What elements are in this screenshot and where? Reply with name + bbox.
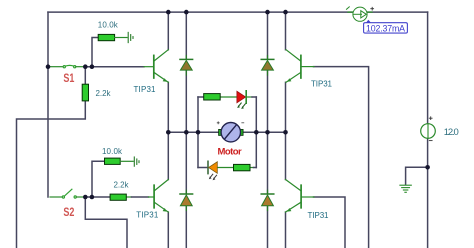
diode D4 (lower-right freewheel): [261, 190, 274, 210]
ground (main, at battery): [400, 185, 411, 192]
wire: R2 bottom lead cross-coupling to bottom edge (drives T4): [17, 101, 86, 248]
wire: ground branch from battery minus node: [406, 167, 428, 184]
resistor R1 10.0k (top): [98, 34, 114, 40]
node on top rail at right emitter rail: [283, 10, 288, 15]
ammeter reading callout 102.37mA: [364, 20, 408, 34]
wire: left diode rail D1 to D3: [185, 71, 187, 194]
svg-text:TIP31: TIP31: [136, 210, 159, 219]
resistor R5 (motor top branch): [204, 94, 221, 100]
node on top rail at right diode rail: [265, 10, 270, 15]
transistor T4 TIP31 (bottom-right, NPN mirrored): [286, 180, 315, 213]
wire: R1 left lead down to S1 node: [92, 38, 98, 67]
node left rail at S1: [46, 64, 51, 69]
wire: top rail right of ammeter to right corner: [367, 11, 427, 13]
svg-text:12.0: 12.0: [444, 127, 459, 138]
diode D2 (upper-right freewheel): [261, 56, 274, 76]
svg-text:2.2k: 2.2k: [114, 181, 130, 190]
wire: motor box right vertical: [255, 97, 257, 168]
wire: T2 base wire to right then down to bottom edge: [314, 67, 369, 248]
wire: top branch segments: [198, 96, 204, 98]
node motor row at box right: [254, 130, 259, 135]
wire: R3 right lead: [120, 160, 133, 162]
wire: left rail from top rail to S2 row: [47, 12, 49, 197]
diode D3 (lower-left freewheel): [180, 190, 193, 210]
svg-text:10.0k: 10.0k: [102, 147, 123, 156]
node: junction dots: [46, 10, 430, 200]
svg-text:S1: S1: [63, 71, 74, 85]
switch S2 (open): [50, 189, 84, 198]
wire: left rail T1 emitter to motor row to T3 collector: [167, 82, 169, 179]
wire: left rail T3 emitter to bottom edge: [167, 212, 169, 248]
wire: T4 base wire to right then down to bottom edge: [314, 197, 346, 248]
voltage source V1 12V battery: [421, 117, 436, 141]
transistor T3 TIP31 (bottom-left, NPN): [149, 180, 169, 213]
wire: right rail T4 emitter to bottom edge: [285, 212, 287, 248]
ground (rotated) at R1: [128, 32, 133, 42]
wire: motor row horizontal: [168, 131, 218, 133]
svg-text:TIP31: TIP31: [311, 80, 333, 89]
node battery minus / ground junction: [425, 165, 430, 170]
wire: motor box left vertical: [197, 97, 199, 168]
resistor R4 2.2k (bottom, horizontal): [110, 194, 126, 200]
wire: right emitter rail upper (top rail to T2 collector): [285, 12, 287, 50]
ground (rotated) at R3: [134, 157, 139, 166]
ammeter AM1: [347, 7, 374, 21]
node S1 output 1: [83, 64, 88, 69]
wire: right rail down to source top: [427, 12, 429, 124]
resistor R2 2.2k (vertical): [82, 84, 88, 101]
svg-text:TIP31: TIP31: [308, 211, 330, 220]
wire: R3 left lead down to S2 node: [92, 161, 105, 197]
node motor row at right emitter rail: [283, 130, 288, 135]
node motor row at box left: [196, 130, 201, 135]
wire: left emitter/collector rail upper (top rail to T1 collector): [167, 12, 169, 50]
svg-text:10.0k: 10.0k: [98, 20, 119, 29]
wire: left diode rail below D3: [185, 206, 187, 248]
motor M1: [217, 122, 244, 142]
resistor R6 (motor bottom branch): [234, 164, 251, 170]
LED LED1 (red, top branch): [237, 91, 246, 109]
node on top rail at left emitter rail: [166, 10, 171, 15]
node on top rail at left diode rail: [184, 10, 189, 15]
wire: R2 top lead from S1 node: [84, 67, 86, 85]
wire: left diode rail above D1: [185, 12, 187, 59]
wire: top +12V rail left of ammeter: [48, 11, 353, 13]
transistor T1 TIP31 (top-left, NPN): [144, 50, 168, 83]
transistor T2 TIP31 (top-right, NPN mirrored): [286, 50, 314, 83]
wire: S2 row from switch to R4: [85, 196, 110, 198]
node S2 output 1: [83, 195, 88, 200]
wire: right rail T2 emitter to motor row to T4 collector: [285, 82, 287, 179]
wire: S2 cross-coupling wire to bottom edge (drives T2): [85, 197, 127, 248]
LED LED2 (orange, bottom branch): [208, 161, 217, 180]
node motor row at right diode rail: [265, 130, 270, 135]
node S1 output 2: [90, 64, 95, 69]
node motor row at left emitter rail: [166, 130, 171, 135]
diode D1 (upper-left freewheel): [180, 56, 193, 76]
wire: R1 right lead: [115, 37, 127, 39]
svg-text:102.37mA: 102.37mA: [366, 23, 405, 33]
svg-text:2.2k: 2.2k: [96, 89, 112, 98]
resistor R3 10.0k (bottom): [105, 158, 121, 164]
switch S1 (closed): [50, 65, 84, 67]
wire: S1 row from switch to T1 base: [85, 66, 144, 68]
wire: right diode rail D2 to D4: [267, 71, 269, 194]
svg-text:TIP31: TIP31: [134, 85, 157, 94]
svg-text:Motor: Motor: [218, 147, 242, 158]
wire: source bottom to ground node to image bottom: [427, 138, 429, 248]
wire: right diode rail below D4: [267, 206, 269, 248]
node motor row at left diode rail: [184, 130, 189, 135]
wire: right diode rail above D2: [267, 12, 269, 59]
wire: bottom branch segments: [198, 167, 207, 169]
wire: R4 right lead to T3 base: [126, 196, 131, 198]
node S2 output 2: [90, 195, 95, 200]
svg-text:S2: S2: [63, 205, 74, 219]
